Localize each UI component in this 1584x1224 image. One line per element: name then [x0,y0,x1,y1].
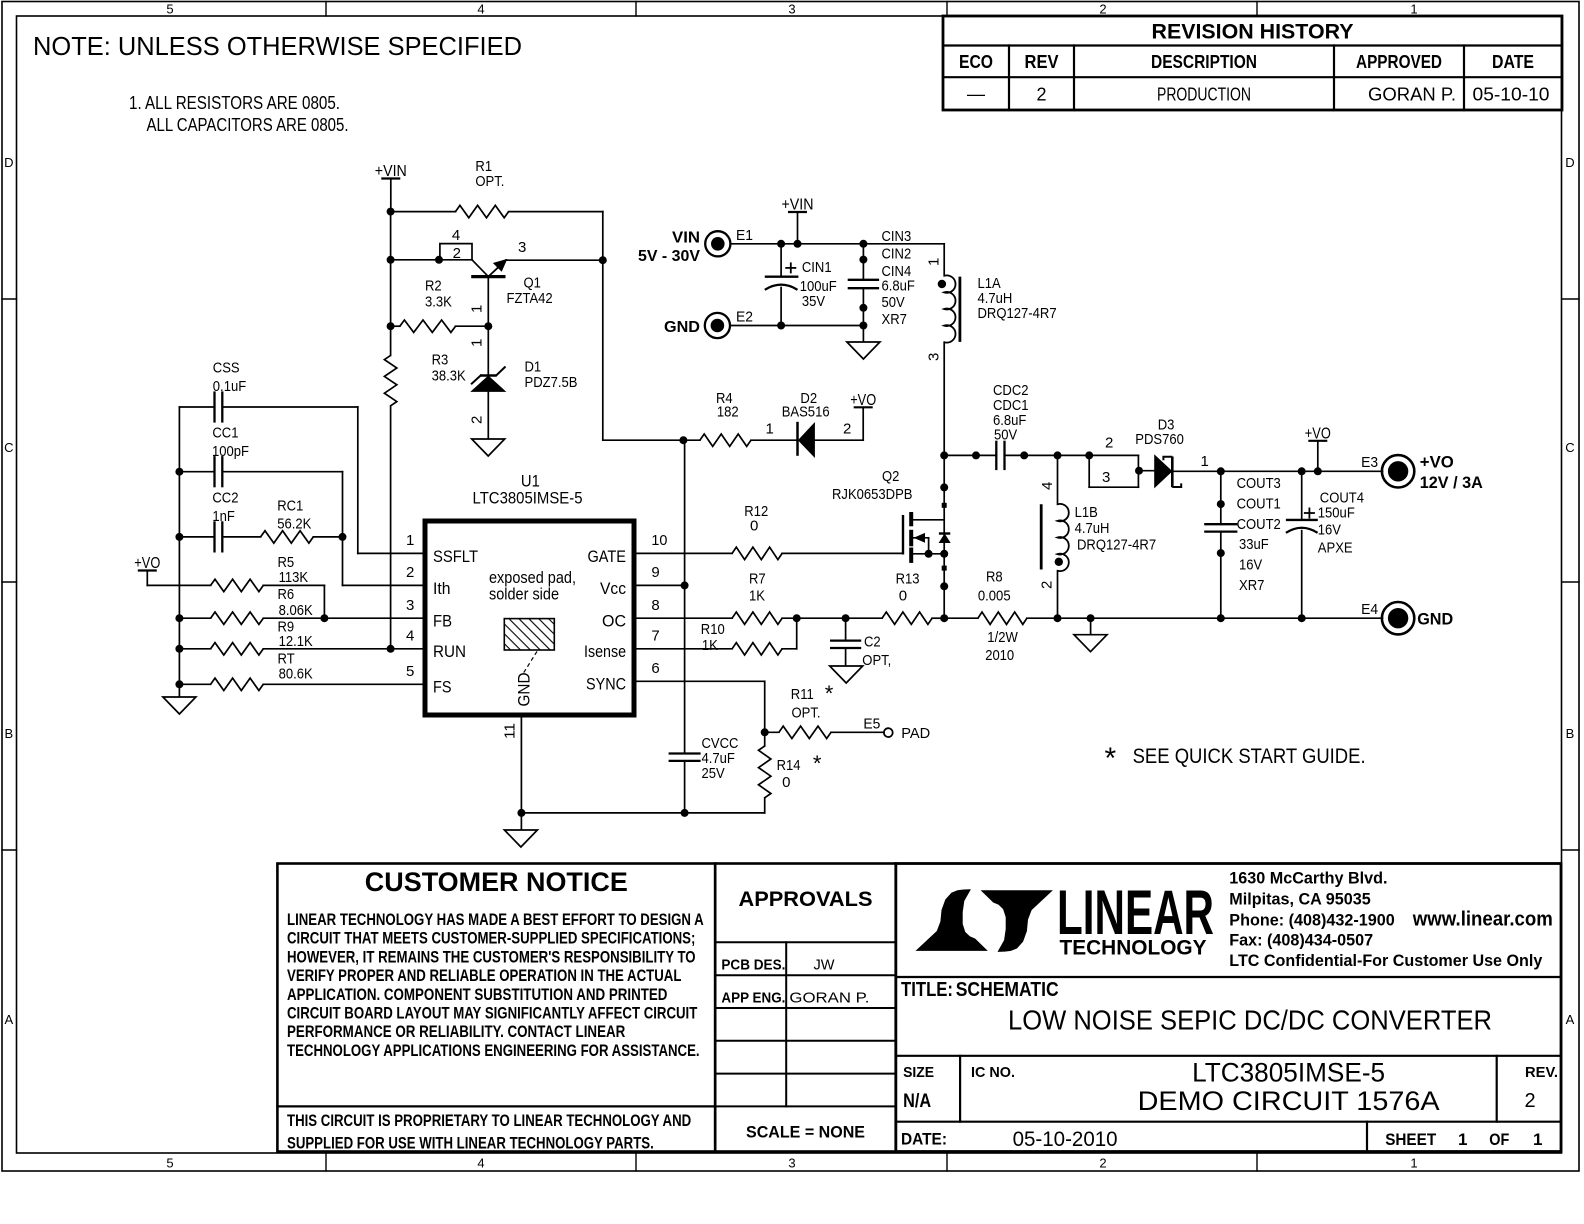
svg-text:A: A [4,1012,13,1027]
svg-text:Milpitas, CA 95035: Milpitas, CA 95035 [1229,890,1370,908]
wire R5 down to FB [323,585,325,618]
wire gnd row to E4 [1058,617,1383,619]
wire Vcc pin to CVCC [634,584,685,586]
svg-text:CUSTOMER NOTICE: CUSTOMER NOTICE [365,867,628,897]
svg-text:PAD: PAD [901,725,930,742]
wire R14 leads [764,732,766,813]
junction CIN1 bottom [777,322,785,330]
junction D3 anode [1135,467,1143,475]
wire L1A top lead [943,244,945,276]
svg-text:APPROVED: APPROVED [1356,52,1442,72]
svg-text:5: 5 [166,1156,173,1171]
wire D1 anode down [487,391,489,439]
label CC1 [212,424,249,460]
svg-text:16V: 16V [1318,522,1341,539]
svg-text:E4: E4 [1361,601,1378,618]
junction rail RT [175,680,183,688]
svg-text:C2: C2 [864,634,881,651]
svg-text:RUN: RUN [433,642,466,661]
U1 pin names left [433,547,478,697]
svg-text:0.1uF: 0.1uF [213,378,246,395]
wire to E3 [1302,470,1383,472]
U1 exposed pad GND label [515,673,534,707]
wire CC1 vertical to Ith [342,472,344,586]
pin 1 label D2 [766,421,774,438]
svg-text:5: 5 [406,663,414,680]
svg-text:R2: R2 [425,278,442,295]
wire R2 leads [391,325,489,327]
wire gnd bottom row [521,812,764,814]
wire right vertical to R4 row [602,212,604,441]
wire R4 left lead [683,439,700,441]
junction CDC right [1020,451,1028,459]
svg-text:0: 0 [899,588,907,605]
wire left rail [178,407,180,697]
wire L1A bottom lead [943,342,945,455]
pin 3 label L1A [926,353,943,361]
svg-text:CC2: CC2 [212,489,238,506]
junction pin3 right vertical [599,256,607,264]
svg-text:1: 1 [1410,2,1417,17]
approvals scale [746,1123,865,1142]
svg-text:38.3K: 38.3K [432,368,466,385]
label CC2 [212,489,238,525]
resistor R8 [978,612,1027,624]
svg-text:E5: E5 [863,715,880,732]
junction R5 FB node [320,614,328,622]
pin 2 label D1 [469,416,486,424]
wire CSS left [179,406,214,408]
junction +VO stub E3 [1314,467,1322,475]
junction Q1 base R2 node [484,322,492,330]
label CIN3 CIN2 CIN4 [882,228,915,328]
svg-text:E1: E1 [736,227,753,244]
pin 1 label Q1 [469,305,486,313]
svg-text:182: 182 [717,404,739,421]
wire pin11 gnd stub [520,813,522,830]
wire C2 to R13 [846,617,883,619]
svg-text:*: * [1105,742,1117,775]
svg-text:25V: 25V [702,765,725,782]
svg-text:SIZE: SIZE [903,1064,934,1081]
wire R7 to node [782,617,797,619]
U1 pin names right [584,547,626,694]
svg-text:LTC Confidential-For Customer: LTC Confidential-For Customer Use Only [1229,952,1543,970]
capacitor COUT1 COUT2 COUT3 [1204,471,1237,618]
junction rail R9 [175,645,183,653]
approvals title [739,888,873,911]
resistor R13 [882,612,932,624]
svg-text:—: — [967,84,985,104]
svg-text:+VIN: +VIN [782,197,814,214]
diode D3 triangle [1155,456,1172,487]
svg-text:Vcc: Vcc [600,579,626,598]
wire Isense pin to R10 [634,648,732,650]
svg-text:+VO: +VO [134,555,160,572]
svg-text:1: 1 [469,305,486,313]
svg-text:Q1: Q1 [524,275,541,292]
logo TECHNOLOGY text [1060,936,1207,960]
label R5 [278,554,309,586]
wire row2 to Q1 collector box [391,259,440,261]
svg-text:2: 2 [1036,85,1046,105]
svg-text:113K: 113K [279,569,309,586]
wire R9 left [179,648,210,650]
label RT [278,651,313,683]
U1 exposed pad note [489,568,576,604]
svg-text:B: B [1566,726,1575,741]
svg-text:2: 2 [406,564,414,581]
svg-text:50V: 50V [882,294,905,311]
svg-text:E3: E3 [1361,454,1378,471]
logo www.linear.com [1412,909,1553,931]
svg-text:Phone: (408)432-1900: Phone: (408)432-1900 [1229,911,1394,929]
svg-text:CIRCUIT BOARD LAYOUT MAY SIGNI: CIRCUIT BOARD LAYOUT MAY SIGNIFICANTLY A… [287,1005,697,1023]
title label [901,979,1059,1001]
title block section lines [896,977,1561,1122]
svg-text:3: 3 [1102,469,1110,486]
wire R12 to Q2 gate [782,552,903,554]
wire R13 right lead [932,617,944,619]
junction gnd row tap [1087,614,1095,622]
svg-text:DRQ127-4R7: DRQ127-4R7 [978,305,1057,322]
svg-text:OF: OF [1489,1130,1509,1149]
label R14 [777,751,822,791]
pin 1 label D1 [469,339,486,347]
svg-text:SEE QUICK START GUIDE.: SEE QUICK START GUIDE. [1133,745,1366,768]
svg-text:56.2K: 56.2K [277,516,311,533]
svg-text:LINEAR TECHNOLOGY HAS MADE A B: LINEAR TECHNOLOGY HAS MADE A BEST EFFORT… [287,911,704,929]
inductor L1A phasing dot [938,280,946,288]
capacitor CSS [215,391,223,422]
label D3 [1135,417,1184,449]
svg-text:THIS CIRCUIT IS PROPRIETARY TO: THIS CIRCUIT IS PROPRIETARY TO LINEAR TE… [287,1112,691,1130]
label COUT4 [1318,490,1364,557]
wire node to C2 [797,617,846,619]
diode D1 zener cathode bar [472,367,505,383]
svg-text:*: * [825,681,834,706]
wire L1B top lead [1057,455,1059,504]
junction Q1 collector pins [435,256,443,264]
junction +VIN stub [794,240,802,248]
wire D1 branch top [487,326,489,375]
inductor L1A core bar [959,277,962,342]
svg-text:2010: 2010 [985,647,1014,664]
svg-text:3.3K: 3.3K [425,293,452,310]
junction +VIN rail top [387,208,395,216]
svg-text:PRODUCTION: PRODUCTION [1157,85,1251,105]
wire SYNC pin right [634,680,765,682]
wire D3 cathode out [1172,470,1221,472]
svg-text:NOTE: UNLESS OTHERWISE SPECIFI: NOTE: UNLESS OTHERWISE SPECIFIED [33,31,522,61]
wire R10 up to OC node [782,618,797,649]
svg-text:1: 1 [1201,453,1209,470]
customer notice footer [287,1112,691,1153]
junction Vcc CVCC [681,581,689,589]
wire OC pin to R7 [634,617,732,619]
svg-text:+VO: +VO [850,392,876,409]
junction C2 tap [842,614,850,622]
capacitor COUT4 [1286,471,1318,618]
svg-text:6: 6 [651,660,659,677]
revision table headers [959,52,1534,72]
title main [1008,1005,1492,1036]
svg-text:REV.: REV. [1525,1064,1558,1081]
U1 pin numbers right [651,532,667,677]
svg-text:2: 2 [1099,2,1106,17]
label L1A [978,275,1057,322]
junction Q2 body-source [925,550,933,558]
svg-text:R13: R13 [896,571,920,588]
svg-text:E2: E2 [736,309,753,326]
wire R1 row left [391,211,456,213]
junction pin11 bottom [517,809,525,817]
svg-text:D: D [4,155,13,170]
ground symbol below CIN [847,342,880,359]
wire CC1 left [179,471,214,473]
pin 2 label D2 [843,421,851,438]
terminal E2 [705,313,730,338]
wire R8 to L1B node [1027,617,1058,619]
transistor Q1 base bar [471,275,505,278]
svg-text:33uF: 33uF [1239,536,1269,553]
ground symbol below U1 [504,830,537,847]
label +VO 12V 3A [1420,453,1483,492]
customer notice title [365,867,628,897]
junction Q2 source pin end [940,582,948,590]
svg-text:7: 7 [651,628,659,645]
size label [903,1064,934,1112]
wire E1 to CIN1 [731,243,782,245]
junction R4 row branch [679,436,687,444]
svg-text:COUT2: COUT2 [1237,516,1281,533]
svg-text:50V: 50V [994,427,1017,444]
revision table title [1152,21,1354,44]
svg-text:COUT3: COUT3 [1237,475,1281,492]
wire L1B bottom lead [1057,571,1059,619]
ground symbol left rail [163,697,196,714]
svg-text:R6: R6 [278,586,295,603]
svg-text:RC1: RC1 [277,498,303,515]
wire CIN1 to CIN2 bottom [781,325,863,327]
svg-text:CIRCUIT THAT MEETS CUSTOMER-SU: CIRCUIT THAT MEETS CUSTOMER-SUPPLIED SPE… [287,930,695,948]
resistor R3 [384,355,396,405]
note 1 line 2 [147,115,349,135]
transistor Q2 gate bar [902,515,904,555]
transistor Q1 emitter arrow [488,260,506,277]
capacitor COUT4 plus sign [1304,508,1315,519]
svg-text:4: 4 [452,227,460,244]
diode D2 cathode bar [796,422,799,456]
wire D2 to +VO [814,439,863,441]
wire R5 right [263,584,324,586]
junction rail CC2 [175,533,183,541]
pin 3 label Q1 [518,239,526,256]
svg-text:FS: FS [433,678,452,697]
svg-text:DATE: DATE [1492,52,1534,72]
svg-text:CSS: CSS [213,360,240,377]
diode Q2 body diode [939,534,950,543]
svg-text:PCB DES.: PCB DES. [721,957,785,974]
label Q2 [832,468,913,503]
wire R6 left [179,617,210,619]
wire to L1A top [863,243,944,245]
junction COUT4 top [1298,467,1306,475]
customer notice box [277,864,715,1152]
approvals table lines [715,942,896,1106]
ground symbol below C2 [830,666,863,683]
label COUT3 COUT1 COUT2 [1237,475,1281,594]
svg-text:B: B [4,726,13,741]
sheet row [1385,1130,1542,1149]
pin 4 label Q1 [452,227,460,244]
label R7 [749,571,766,605]
svg-text:VERIFY PROPER AND RELIABLE OPE: VERIFY PROPER AND RELIABLE OPERATION IN … [287,967,681,985]
svg-text:1: 1 [1458,1130,1467,1149]
svg-text:1: 1 [926,258,943,266]
label L1B [1075,504,1157,554]
svg-text:REV: REV [1025,52,1059,72]
wire U1 pin11 GND [520,715,522,813]
svg-text:RJK0653DPB: RJK0653DPB [832,486,913,503]
wire Q1 base down [487,277,489,327]
wire RC1 right [313,536,342,538]
pin 2 label Q1 [453,245,461,262]
svg-text:N/A: N/A [903,1091,931,1112]
Q1 collector pins 4/2 loop [440,244,472,260]
wire rail row2-R2 [390,260,392,326]
junction CIN1 top [777,240,785,248]
label CSS [213,360,246,396]
logo address line 2 [1229,890,1370,908]
svg-text:1/2W: 1/2W [987,629,1018,646]
logo LT mark [916,889,1053,952]
junction CVCC bottom [681,809,689,817]
junction CDC left [972,451,980,459]
svg-text:CC1: CC1 [212,424,238,441]
svg-text:HOWEVER, IT REMAINS THE CUSTOM: HOWEVER, IT REMAINS THE CUSTOMER'S RESPO… [287,948,696,966]
label R10 [701,621,725,654]
resistor R12 [732,547,782,559]
label VIN [638,230,700,266]
inductor L1B winding [1058,504,1069,571]
junction L1B bottom node [1054,614,1062,622]
svg-text:4: 4 [477,1156,484,1171]
label E5 [863,715,880,732]
wire R9 right to RUN pin [263,648,425,650]
label R12 [744,503,768,535]
label E2 [736,309,753,326]
svg-text:+VIN: +VIN [375,163,407,180]
svg-text:SSFLT: SSFLT [433,547,478,566]
svg-text:GATE: GATE [588,547,627,566]
junction CIN2 bottom [859,322,867,330]
svg-text:SYNC: SYNC [586,675,626,694]
svg-text:35V: 35V [802,293,825,310]
wire Ith pin wire [343,584,426,586]
svg-text:1630 McCarthy Blvd.: 1630 McCarthy Blvd. [1229,869,1387,887]
svg-text:*: * [813,751,822,776]
wire R6 right to FB pin [263,617,425,619]
svg-text:16V: 16V [1239,557,1262,574]
wire CDC to D3 loop [1005,454,1139,456]
svg-text:REVISION HISTORY: REVISION HISTORY [1152,21,1354,44]
pin 3 label D3 [1102,469,1110,486]
svg-text:XR7: XR7 [882,311,907,328]
transistor Q2 channel bars [909,512,913,563]
wire R4-branch vertical [684,440,686,585]
svg-text:05-10-2010: 05-10-2010 [1013,1128,1118,1151]
svg-text:DEMO CIRCUIT 1576A: DEMO CIRCUIT 1576A [1138,1086,1440,1116]
svg-text:3: 3 [518,239,526,256]
revision table row lines [943,46,1562,78]
svg-text:DESCRIPTION: DESCRIPTION [1151,52,1257,72]
date row [901,1128,1118,1151]
note heading [33,31,522,61]
svg-text:ECO: ECO [959,52,993,72]
resistor R10 [732,643,782,655]
svg-text:FB: FB [433,612,452,631]
title block box [896,864,1561,1152]
svg-text:APXE: APXE [1318,540,1353,557]
svg-text:www.linear.com: www.linear.com [1412,909,1553,931]
junction COUT123 top [1217,467,1225,475]
junction rail row2 [387,256,395,264]
resistor R4 [700,434,751,446]
resistor RT [211,678,264,690]
svg-text:L1B: L1B [1075,504,1098,521]
junction CIN2 top [859,240,867,248]
terminal E5 [884,728,893,737]
svg-text:DATE:: DATE: [901,1130,947,1149]
junction R7 R10 node [793,614,801,622]
svg-text:4: 4 [1039,482,1056,490]
U1 exposed pad leader [524,651,538,673]
svg-text:GND: GND [1417,610,1453,629]
label E4 [1361,601,1378,618]
svg-text:12.1K: 12.1K [279,633,313,650]
svg-text:4: 4 [477,2,484,17]
svg-text:5: 5 [166,2,173,17]
junction L1B top [1054,451,1062,459]
pin 2 label L1B [1039,581,1056,589]
svg-text:PDS760: PDS760 [1135,431,1184,448]
svg-text:PDZ7.5B: PDZ7.5B [525,374,578,391]
logo address line 3 [1229,911,1394,929]
svg-text:150uF: 150uF [1318,504,1355,521]
svg-text:D: D [1565,155,1574,170]
svg-text:1: 1 [406,532,414,549]
wire RT right to FS pin [263,683,425,685]
wire R4 row left [603,439,684,441]
svg-text:0.005: 0.005 [978,587,1011,604]
power +VO symbol (E3) [1305,425,1331,471]
customer notice body [287,911,704,1060]
svg-text:+VO: +VO [1420,453,1454,472]
label R3 [432,352,466,385]
logo address line 1 [1229,869,1387,887]
Q2 pin stub mark upper [942,503,947,508]
svg-text:1nF: 1nF [212,508,235,525]
label R9 [278,619,313,650]
revision history table frame [943,16,1562,110]
terminal E1 [705,231,730,256]
svg-text:LTC3805IMSE-5: LTC3805IMSE-5 [1192,1058,1385,1088]
label R2 [425,278,452,311]
ic no label [971,1064,1015,1081]
svg-text:APPROVALS: APPROVALS [739,888,873,911]
label C2 [862,634,891,670]
